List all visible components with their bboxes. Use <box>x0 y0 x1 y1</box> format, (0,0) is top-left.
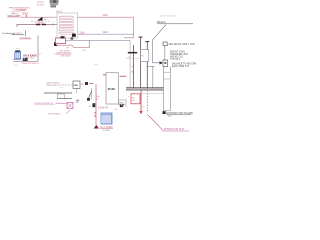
svg-text:XX XXX: XX XXX <box>27 57 35 59</box>
svg-text:14x8: 14x8 <box>103 31 109 34</box>
svg-text:MXU: MXU <box>119 102 124 104</box>
svg-text:2": 2" <box>39 53 41 55</box>
svg-text:2-XXX-1: 2-XXX-1 <box>14 33 23 35</box>
svg-text:TYP OF 2: TYP OF 2 <box>170 59 181 61</box>
svg-text:12x8: 12x8 <box>80 32 86 34</box>
svg-text:FD: FD <box>76 102 79 104</box>
svg-text:TYP: TYP <box>168 116 173 118</box>
svg-text:x xxx: x xxx <box>59 87 63 89</box>
svg-text:x: x <box>128 96 129 98</box>
svg-text:MUA-1: MUA-1 <box>157 20 166 24</box>
svg-text:EF/RL: EF/RL <box>108 87 116 91</box>
svg-text:2" 2": 2" 2" <box>37 26 41 28</box>
svg-text:XXX XXXXX: XXX XXXXX <box>48 113 61 115</box>
svg-text:EACH SIDE TYP: EACH SIDE TYP <box>172 65 190 68</box>
svg-text:ON PAD: ON PAD <box>103 129 111 132</box>
svg-text:FSD: FSD <box>74 85 79 87</box>
svg-text:xxxx: xxxx <box>94 64 98 66</box>
svg-text:XXXXX XXXXX XX: XXXXX XXXXX XX <box>34 103 53 105</box>
svg-text:SEE DETAIL 4/M5.1 FOR: SEE DETAIL 4/M5.1 FOR <box>169 43 196 46</box>
svg-text:x x x: x x x <box>16 48 20 50</box>
svg-text:14x8: 14x8 <box>103 14 109 17</box>
svg-text:FC: FC <box>141 55 144 57</box>
svg-text:xxxx: xxxx <box>14 65 18 67</box>
svg-text:XX XXX: XX XXX <box>37 4 45 6</box>
svg-text:abcde fghij klm: abcde fghij klm <box>160 16 175 18</box>
svg-text:XXXX XX XXXX X: XXXX XX XXXX X <box>22 63 40 65</box>
svg-text:2": 2" <box>52 25 54 27</box>
svg-text:14x10 OA: 14x10 OA <box>98 107 109 110</box>
svg-text:XXXX XXX: XXXX XXX <box>46 85 57 87</box>
svg-text:XXX XXXX: XXX XXXX <box>61 56 72 58</box>
